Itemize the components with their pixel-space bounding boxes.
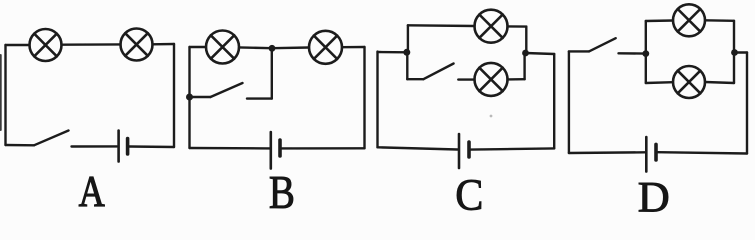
node right junction dot (circuit D) xyxy=(731,49,738,56)
wire lamp1-to-node (circuit B) xyxy=(239,46,272,49)
node right junction dot (circuit C) xyxy=(522,50,529,57)
wire riser to top branch (circuit C) xyxy=(407,25,409,52)
switch S1 contact lead (circuit B) xyxy=(247,97,272,99)
wire right vertical (circuit A) xyxy=(173,44,175,147)
lamp L2 (circuit B) xyxy=(309,31,342,64)
node dot on left wire (circuit B) xyxy=(186,94,193,101)
wire right riser up bottom (circuit D) xyxy=(733,53,735,84)
wire bottom-left segment (circuit C) xyxy=(378,147,458,149)
scan edge artifact left border xyxy=(0,55,2,130)
node left junction dot (circuit C) xyxy=(403,49,410,56)
wire top branch right (circuit D) xyxy=(705,19,734,22)
wire left vertical (circuit D) xyxy=(568,51,570,153)
switch S1 contact lead (circuit C) xyxy=(458,78,474,80)
wire top-left segment (circuit B) xyxy=(190,46,207,48)
node left junction dot (circuit D) xyxy=(642,50,649,57)
lamp L1 (circuit C) xyxy=(475,10,508,43)
lamp L2 (circuit A) xyxy=(121,29,153,61)
wire right vertical (circuit C) xyxy=(553,54,555,148)
lamp L2 (circuit C) xyxy=(475,63,508,96)
switch S1 blade (circuit D) xyxy=(589,38,616,51)
wire bottom-right segment (circuit D) xyxy=(658,152,747,153)
node junction dot top (circuit B) xyxy=(269,45,276,52)
wire left-to-node (circuit C) xyxy=(378,51,407,54)
wire right riser down top (circuit D) xyxy=(733,21,735,53)
lamp L2 (circuit D) xyxy=(673,66,705,98)
switch S1 blade (circuit B) xyxy=(211,83,243,97)
wire riser to bottom branch (circuit D) xyxy=(645,54,647,83)
wire right vertical (circuit B) xyxy=(363,47,365,148)
wire top-right segment (circuit B) xyxy=(342,46,365,49)
label B xyxy=(270,177,293,208)
wire bottom-right segment (circuit C) xyxy=(471,148,554,149)
battery B1 (circuit B) xyxy=(271,132,280,169)
wire right vertical (circuit D) xyxy=(746,53,748,154)
wire bottom-left segment (circuit A) xyxy=(6,144,35,147)
battery B1 (circuit D) xyxy=(646,137,656,172)
switch S1 drop wire (circuit C) xyxy=(406,52,408,79)
wire bottom branch left (circuit D) xyxy=(646,81,673,84)
wire left vertical (circuit A) xyxy=(4,45,6,145)
switch S1 lead (circuit C) xyxy=(407,78,423,80)
wire top branch right (circuit C) xyxy=(508,25,527,28)
wire switch-to-battery (circuit A) xyxy=(72,145,118,148)
wire between lamps (circuit A) xyxy=(62,43,121,46)
battery B1 (circuit A) xyxy=(119,131,128,162)
wire riser to top branch (circuit D) xyxy=(645,21,647,54)
switch S1 contact lead (circuit D) xyxy=(619,52,646,55)
wire top-left segment (circuit A) xyxy=(6,44,30,46)
switch S1 lead (circuit B) xyxy=(190,96,211,98)
wire node-to-lamp2 (circuit B) xyxy=(272,46,309,49)
label C xyxy=(457,180,481,210)
wire top branch left (circuit C) xyxy=(408,24,475,27)
wire right riser down (circuit C) xyxy=(525,27,527,53)
wire middle vertical node-to-switch (circuit B) xyxy=(271,48,273,98)
wire bottom-right segment (circuit B) xyxy=(282,147,365,149)
label A xyxy=(79,177,104,206)
switch S1 blade (circuit A) xyxy=(34,131,69,146)
wire battery-to-right (circuit A) xyxy=(130,145,175,148)
switch S1 lead (circuit D) xyxy=(569,50,589,52)
wire bottom branch right (circuit D) xyxy=(705,82,734,83)
wire left vertical (circuit C) xyxy=(376,52,378,148)
wire node-to-right (circuit D) xyxy=(735,51,748,53)
wire top-right segment (circuit A) xyxy=(153,43,175,46)
wire left vertical (circuit B) xyxy=(188,47,190,148)
lamp L1 (circuit B) xyxy=(206,31,239,64)
wire top branch left (circuit D) xyxy=(646,19,673,22)
lamp L1 (circuit D) xyxy=(673,4,705,36)
wire bottom-left segment (circuit B) xyxy=(190,147,270,150)
battery B1 (circuit C) xyxy=(459,134,469,168)
wire right riser up (circuit C) xyxy=(523,53,525,79)
switch S1 blade (circuit C) xyxy=(423,64,453,80)
lamp L1 (circuit A) xyxy=(30,29,62,61)
wire bottom-left segment (circuit D) xyxy=(569,151,645,154)
scan speck xyxy=(490,115,493,118)
label D xyxy=(639,183,668,212)
wire lamp2-to-riser (circuit C) xyxy=(508,78,525,81)
wire node-to-right (circuit C) xyxy=(526,53,555,54)
